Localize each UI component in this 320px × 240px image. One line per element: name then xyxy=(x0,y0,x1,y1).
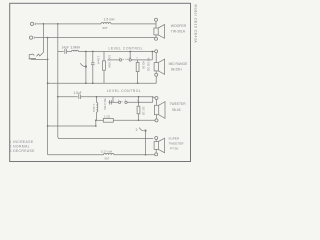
wire super tweeter vertical xyxy=(155,140,157,142)
capacitor C2 tweeter xyxy=(79,95,81,100)
svg-text:1.5µF: 1.5µF xyxy=(74,91,82,95)
selector arrow mid xyxy=(80,63,85,66)
node shunt cap return xyxy=(92,82,94,84)
resistor level mid xyxy=(136,60,139,83)
wire return to bus B xyxy=(48,125,96,127)
wire woofer vertical xyxy=(155,21,157,28)
svg-text:SUPER: SUPER xyxy=(168,136,179,140)
wire top rail (+) to woofer xyxy=(36,23,101,25)
wire tweeter plus riser xyxy=(153,97,155,103)
wire rail to super tweeter xyxy=(114,154,155,156)
inductor L4 0.17mH xyxy=(104,153,114,154)
svg-text:Model CB10 CB43A: Model CB10 CB43A xyxy=(194,5,198,44)
node tweeter resistor row xyxy=(138,101,140,103)
resistor level tweeter xyxy=(137,97,140,121)
circuit breaker xyxy=(29,54,36,59)
contact 2 mid xyxy=(129,59,131,61)
wire row tweeter xyxy=(113,101,118,103)
node mid riser xyxy=(151,51,153,53)
node pad rail xyxy=(145,154,147,156)
svg-text:3Ω 1Ω: 3Ω 1Ω xyxy=(142,107,146,116)
wire L1 to woofer xyxy=(111,23,156,25)
svg-text:3 DECREASE: 3 DECREASE xyxy=(10,149,36,153)
wire woofer to minus terminal xyxy=(155,35,157,37)
svg-text:TW-301A: TW-301A xyxy=(171,30,186,34)
svg-text:1.4mH: 1.4mH xyxy=(92,104,96,113)
svg-text:98-45: 98-45 xyxy=(172,108,181,112)
svg-text:0.17 mH: 0.17 mH xyxy=(101,149,112,153)
svg-text:4Ω 5Ω 2Ω: 4Ω 5Ω 2Ω xyxy=(147,58,151,72)
node mid level resistor return xyxy=(137,82,139,84)
switch blade into breaker xyxy=(36,52,43,56)
node tweeter level resistor return xyxy=(138,119,140,121)
speaker tweeter xyxy=(154,102,165,119)
svg-text:1.8mH: 1.8mH xyxy=(96,56,100,65)
svg-text:WOOFER: WOOFER xyxy=(171,24,187,28)
wire mid vertical xyxy=(155,53,157,63)
capacitor C1 14uF xyxy=(65,49,67,54)
node junction bus A top xyxy=(43,23,45,25)
svg-text:3.9MH: 3.9MH xyxy=(71,45,81,49)
inductor L1 1.5mH xyxy=(101,23,111,24)
selector dashes tweeter xyxy=(122,101,124,103)
contact 1 tweeter xyxy=(118,101,120,103)
svg-text:3: 3 xyxy=(136,128,138,132)
svg-text:14µF: 14µF xyxy=(62,45,69,49)
svg-text:90T: 90T xyxy=(103,26,108,30)
resistor tweeter return xyxy=(103,118,113,122)
speaker woofer xyxy=(154,25,165,39)
svg-text:TWEETER: TWEETER xyxy=(170,102,187,106)
wire row mid right xyxy=(131,59,152,61)
node shunt tap xyxy=(85,51,87,53)
selector dashes mid xyxy=(123,58,125,60)
node junction bus C top xyxy=(57,23,59,25)
contact pad mid xyxy=(85,66,87,68)
svg-text:LEVEL CONTROL: LEVEL CONTROL xyxy=(109,47,143,51)
svg-text:5Ω 2.5Ω: 5Ω 2.5Ω xyxy=(103,99,107,111)
wire breaker to bus B xyxy=(31,58,48,60)
wire feed drop stub xyxy=(109,97,113,103)
svg-text:98-25H: 98-25H xyxy=(171,68,182,72)
wire bus C vertical xyxy=(57,24,59,137)
wire mid feed rail xyxy=(58,51,64,53)
node return bus B xyxy=(47,125,49,127)
resistor shunt mid xyxy=(103,52,106,84)
wire super tweeter feed xyxy=(58,137,153,138)
border frame xyxy=(10,3,191,161)
wire shunt tap vertical xyxy=(85,52,87,84)
wire bus B vertical xyxy=(47,38,49,155)
svg-text:TWEETER: TWEETER xyxy=(168,141,184,145)
node mid return bus B xyxy=(47,82,49,84)
wire mid plus riser xyxy=(152,52,154,60)
node tweeter resistor feed xyxy=(138,96,140,98)
node breaker bus B xyxy=(47,59,49,61)
wire return drop xyxy=(95,120,97,126)
node bus B start xyxy=(47,37,49,39)
tweeter minus terminal xyxy=(155,119,158,122)
mid plus terminal xyxy=(155,50,158,53)
capacitor shunt mid xyxy=(91,52,95,84)
wire super tweeter to minus xyxy=(155,149,157,153)
wire L2 to mid plus xyxy=(79,51,153,53)
wire minus rail from terminal 2 xyxy=(35,37,154,39)
inductor L2 3.9mH xyxy=(72,50,79,51)
svg-text:LEVEL CONTROL: LEVEL CONTROL xyxy=(107,89,141,93)
wire tweeter to minus xyxy=(156,115,158,119)
svg-text:4Ω 50: 4Ω 50 xyxy=(142,61,146,69)
wire tweeter vertical xyxy=(156,100,158,106)
wire C1 to L2 xyxy=(67,51,72,53)
svg-text:10Ω 10W: 10Ω 10W xyxy=(107,55,111,68)
svg-text:1 INCREASE: 1 INCREASE xyxy=(10,140,34,144)
svg-text:2.2Ω: 2.2Ω xyxy=(104,115,111,119)
woofer minus terminal xyxy=(155,37,158,40)
selector arrow tweeter xyxy=(139,128,144,131)
capacitor level tweeter xyxy=(110,100,112,104)
wire bottom rail xyxy=(48,154,104,156)
wire tweeter return xyxy=(113,119,155,121)
wire row tweeter right xyxy=(127,101,153,103)
node tweeter feed tap xyxy=(57,96,59,98)
node shunt tap return xyxy=(85,82,87,84)
contact 2 tweeter xyxy=(125,101,127,103)
wire pad down to rail xyxy=(145,132,147,155)
node shunt coil top xyxy=(96,96,98,98)
wire mid return xyxy=(48,76,157,83)
svg-text:90T: 90T xyxy=(105,157,110,161)
contact pad tweeter xyxy=(145,130,147,132)
svg-text:1.5 mH: 1.5 mH xyxy=(104,18,115,22)
speaker super tweeter xyxy=(154,138,165,153)
svg-text:MID RANGE: MID RANGE xyxy=(169,62,188,66)
wire bus A xyxy=(42,24,44,53)
speaker mid range xyxy=(154,59,165,74)
node tweeter return xyxy=(95,119,97,121)
contact 1 mid xyxy=(119,59,121,61)
level control row mid xyxy=(108,59,120,61)
woofer plus terminal xyxy=(155,18,158,21)
wire tweeter feed xyxy=(58,96,78,98)
super tweeter minus terminal xyxy=(155,153,158,156)
mid minus terminal xyxy=(155,73,158,76)
super tweeter plus terminal xyxy=(155,137,158,140)
svg-text:2 NORMAL: 2 NORMAL xyxy=(10,144,30,148)
node return lower xyxy=(95,125,97,127)
svg-text:PT-50: PT-50 xyxy=(170,146,179,150)
node shunt cap xyxy=(92,51,94,53)
wire mid to minus xyxy=(155,71,157,73)
input terminal 1 xyxy=(30,22,35,25)
wire C2 to riser xyxy=(81,96,153,98)
wire return to node xyxy=(96,119,104,121)
input terminal 2 xyxy=(29,36,34,39)
node contact2 feed xyxy=(129,51,131,53)
inductor shunt tweeter xyxy=(97,97,98,121)
tweeter plus terminal xyxy=(155,97,158,100)
wire contact2 up to feed xyxy=(129,52,131,59)
